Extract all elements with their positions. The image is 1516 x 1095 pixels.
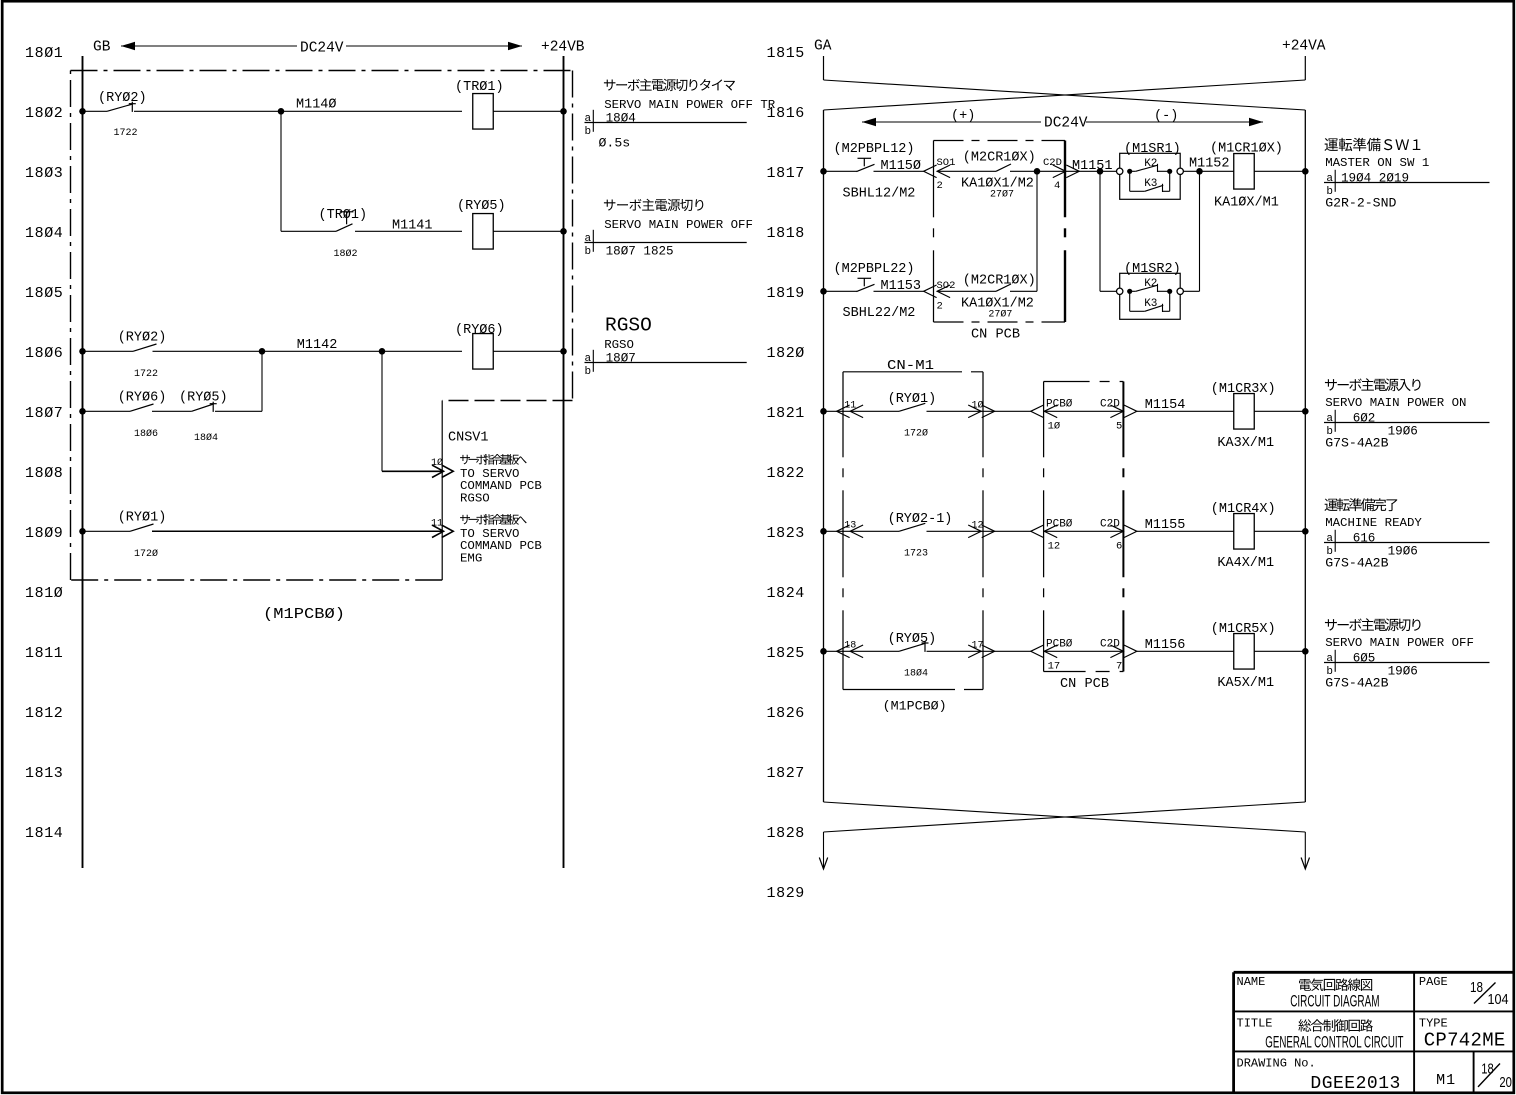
svg-text:K2: K2 [1144,278,1157,290]
svg-text:(M2CR1ØX): (M2CR1ØX) [963,151,1036,166]
svg-text:SERVO MAIN POWER OFF: SERVO MAIN POWER OFF [604,218,753,232]
svg-text:1825: 1825 [767,645,805,662]
svg-text:13: 13 [844,520,856,531]
svg-text:CNSV1: CNSV1 [448,431,489,446]
svg-text:(M2CR1ØX): (M2CR1ØX) [963,274,1036,289]
svg-text:18: 18 [1470,980,1483,996]
svg-text:(RYØ6): (RYØ6) [118,391,167,406]
svg-text:18Ø8: 18Ø8 [25,465,63,482]
svg-text:1722: 1722 [114,128,138,139]
svg-text:11: 11 [431,519,443,530]
svg-text:(RYØ1): (RYØ1) [888,392,937,407]
svg-text:MACHINE READY: MACHINE READY [1325,516,1422,530]
svg-text:M1156: M1156 [1145,638,1186,653]
svg-text:1812: 1812 [25,705,63,722]
svg-text:19Ø6: 19Ø6 [1388,424,1418,438]
svg-text:(M1SR2): (M1SR2) [1124,262,1181,277]
svg-text:a: a [585,353,592,365]
svg-text:(TRØ1): (TRØ1) [319,208,368,223]
svg-text:DC24V: DC24V [1044,116,1088,132]
svg-text:1814: 1814 [25,825,63,842]
svg-text:2: 2 [937,301,943,313]
svg-text:12: 12 [1048,540,1061,552]
svg-text:CN-M1: CN-M1 [887,358,934,374]
svg-text:+24VB: +24VB [541,40,585,56]
svg-text:SERVO MAIN POWER ON: SERVO MAIN POWER ON [1325,396,1466,410]
svg-text:C2D: C2D [1043,157,1062,169]
svg-text:(M2PBPL22): (M2PBPL22) [834,262,915,277]
svg-text:GA: GA [814,39,832,55]
svg-text:a: a [1326,533,1333,545]
svg-text:18Ø5: 18Ø5 [25,285,63,302]
svg-text:RGSO: RGSO [604,338,634,352]
svg-text:5: 5 [1116,420,1122,432]
svg-text:104: 104 [1488,992,1509,1008]
svg-text:27Ø7: 27Ø7 [988,309,1012,321]
svg-text:1722: 1722 [134,369,158,380]
svg-text:18: 18 [1481,1060,1494,1077]
svg-text:EMG: EMG [460,551,482,565]
svg-text:1813: 1813 [25,765,63,782]
svg-text:(+): (+) [951,109,975,124]
svg-text:(RYØ5): (RYØ5) [888,632,937,647]
svg-text:1827: 1827 [767,765,805,782]
svg-text:172Ø: 172Ø [134,548,158,560]
svg-text:(RYØ6): (RYØ6) [455,323,504,338]
svg-text:KA3X/M1: KA3X/M1 [1217,436,1274,451]
svg-text:(M1SR1): (M1SR1) [1124,142,1181,157]
svg-text:19Ø4 2Ø19: 19Ø4 2Ø19 [1341,171,1409,185]
svg-text:SBHL22/M2: SBHL22/M2 [843,306,916,321]
svg-text:6Ø2: 6Ø2 [1353,411,1376,425]
svg-text:1815: 1815 [767,45,805,62]
svg-text:DC24V: DC24V [300,41,344,57]
svg-text:SERVO MAIN POWER OFF: SERVO MAIN POWER OFF [1325,636,1474,650]
svg-text:18Ø4: 18Ø4 [25,225,63,242]
svg-text:Ø.5s: Ø.5s [599,135,631,150]
svg-text:181Ø: 181Ø [25,585,63,602]
svg-text:M1141: M1141 [392,219,433,234]
svg-text:NAME: NAME [1237,975,1266,989]
svg-text:19Ø6: 19Ø6 [1388,544,1418,558]
svg-text:(RYØ2): (RYØ2) [118,331,167,346]
svg-text:1829: 1829 [767,885,805,902]
svg-text:CN PCB: CN PCB [971,328,1020,343]
svg-text:PCBØ: PCBØ [1046,518,1073,530]
svg-text:1Ø: 1Ø [1048,420,1061,432]
svg-text:SO2: SO2 [937,280,956,292]
svg-text:KA1ØX/M1: KA1ØX/M1 [1214,196,1279,211]
svg-text:1723: 1723 [904,548,928,559]
svg-text:18Ø2: 18Ø2 [25,105,63,122]
svg-text:2: 2 [937,180,943,192]
svg-text:1819: 1819 [767,285,805,302]
svg-text:18Ø6: 18Ø6 [134,428,158,440]
svg-text:M1: M1 [1436,1072,1456,1089]
svg-text:MASTER ON SW 1: MASTER ON SW 1 [1325,156,1429,170]
svg-text:M114Ø: M114Ø [296,98,337,113]
svg-text:1828: 1828 [767,825,805,842]
svg-text:18Ø9: 18Ø9 [25,525,63,542]
svg-text:18Ø2: 18Ø2 [334,248,358,260]
svg-text:PAGE: PAGE [1419,975,1448,989]
svg-text:GENERAL CONTROL CIRCUIT: GENERAL CONTROL CIRCUIT [1265,1033,1403,1052]
svg-text:K3: K3 [1144,178,1157,190]
svg-text:1826: 1826 [767,705,805,722]
svg-text:G7S-4A2B: G7S-4A2B [1325,435,1388,450]
svg-text:RGSO: RGSO [605,314,652,336]
svg-text:+24VA: +24VA [1282,39,1326,55]
svg-text:6: 6 [1116,540,1122,552]
svg-text:18Ø7: 18Ø7 [606,351,636,365]
svg-text:(RYØ5): (RYØ5) [457,199,506,214]
svg-text:172Ø: 172Ø [904,427,928,439]
svg-text:M1152: M1152 [1189,157,1230,172]
svg-text:M1155: M1155 [1145,518,1186,533]
svg-text:20: 20 [1499,1074,1512,1091]
svg-text:TITLE: TITLE [1237,1016,1273,1030]
svg-text:1824: 1824 [767,585,805,602]
svg-text:DGEE2013: DGEE2013 [1310,1074,1400,1094]
svg-text:G7S-4A2B: G7S-4A2B [1325,675,1388,690]
svg-text:PCBØ: PCBØ [1046,638,1073,650]
svg-text:7: 7 [1116,660,1122,672]
svg-text:1823: 1823 [767,525,805,542]
svg-text:(RYØ1): (RYØ1) [118,511,167,526]
svg-text:18Ø6: 18Ø6 [25,345,63,362]
svg-text:27Ø7: 27Ø7 [990,189,1014,201]
svg-text:KA5X/M1: KA5X/M1 [1217,676,1274,691]
svg-text:G2R-2-SND: G2R-2-SND [1325,195,1396,210]
svg-text:17: 17 [972,640,984,651]
svg-text:a: a [1326,413,1333,425]
svg-text:a: a [1326,653,1333,665]
svg-text:18Ø4: 18Ø4 [194,432,218,444]
svg-text:b: b [585,246,592,258]
svg-text:616: 616 [1353,531,1376,545]
svg-text:(RYØ5): (RYØ5) [179,391,228,406]
svg-text:(TRØ1): (TRØ1) [455,80,504,95]
svg-text:18Ø4: 18Ø4 [904,667,928,679]
svg-text:M115Ø: M115Ø [881,159,922,174]
svg-text:18: 18 [844,640,856,651]
svg-text:(-): (-) [1154,109,1178,124]
svg-text:M1142: M1142 [297,338,338,353]
svg-text:KA4X/M1: KA4X/M1 [1217,556,1274,571]
svg-text:1818: 1818 [767,225,805,242]
svg-text:SO1: SO1 [937,157,956,169]
svg-text:SERVO MAIN POWER OFF TR: SERVO MAIN POWER OFF TR [604,98,776,112]
svg-text:17: 17 [1048,660,1061,672]
svg-text:19Ø6: 19Ø6 [1388,664,1418,678]
svg-text:GB: GB [93,40,111,56]
svg-text:CP742ME: CP742ME [1424,1030,1506,1052]
svg-text:11: 11 [844,400,856,411]
svg-text:CN PCB: CN PCB [1060,677,1109,692]
svg-text:18Ø4: 18Ø4 [606,111,636,125]
svg-text:6Ø5: 6Ø5 [1353,651,1376,665]
svg-text:1822: 1822 [767,465,805,482]
svg-text:SBHL12/M2: SBHL12/M2 [843,187,916,202]
svg-text:TYPE: TYPE [1419,1016,1448,1030]
svg-text:1817: 1817 [767,165,805,182]
svg-text:1821: 1821 [767,405,805,422]
svg-text:1Ø: 1Ø [972,399,984,411]
svg-text:18Ø7: 18Ø7 [25,405,63,422]
svg-text:182Ø: 182Ø [767,345,805,362]
svg-text:12: 12 [972,520,984,531]
svg-text:(M2PBPL12): (M2PBPL12) [834,142,915,157]
svg-text:18Ø7 1825: 18Ø7 1825 [606,244,674,258]
svg-text:M1153: M1153 [881,279,922,294]
svg-text:K2: K2 [1144,158,1157,170]
svg-text:CIRCUIT DIAGRAM: CIRCUIT DIAGRAM [1290,991,1379,1010]
svg-text:G7S-4A2B: G7S-4A2B [1325,555,1388,570]
svg-text:(RYØ2): (RYØ2) [98,91,147,106]
svg-text:RGSO: RGSO [460,491,490,505]
svg-text:4: 4 [1054,180,1060,192]
svg-text:(M1PCBØ): (M1PCBØ) [883,699,947,714]
svg-text:1Ø: 1Ø [431,457,443,469]
svg-text:b: b [585,366,592,378]
svg-text:a: a [585,233,592,245]
svg-text:18Ø1: 18Ø1 [25,45,63,62]
svg-text:(M1PCBØ): (M1PCBØ) [263,606,345,623]
svg-text:1811: 1811 [25,645,63,662]
svg-text:K3: K3 [1144,298,1157,310]
svg-text:PCBØ: PCBØ [1046,398,1073,410]
svg-text:a: a [1326,173,1333,185]
svg-text:M1154: M1154 [1145,398,1186,413]
svg-text:b: b [585,126,592,138]
svg-text:a: a [585,113,592,125]
svg-text:18Ø3: 18Ø3 [25,165,63,182]
svg-text:DRAWING No.: DRAWING No. [1237,1057,1316,1071]
